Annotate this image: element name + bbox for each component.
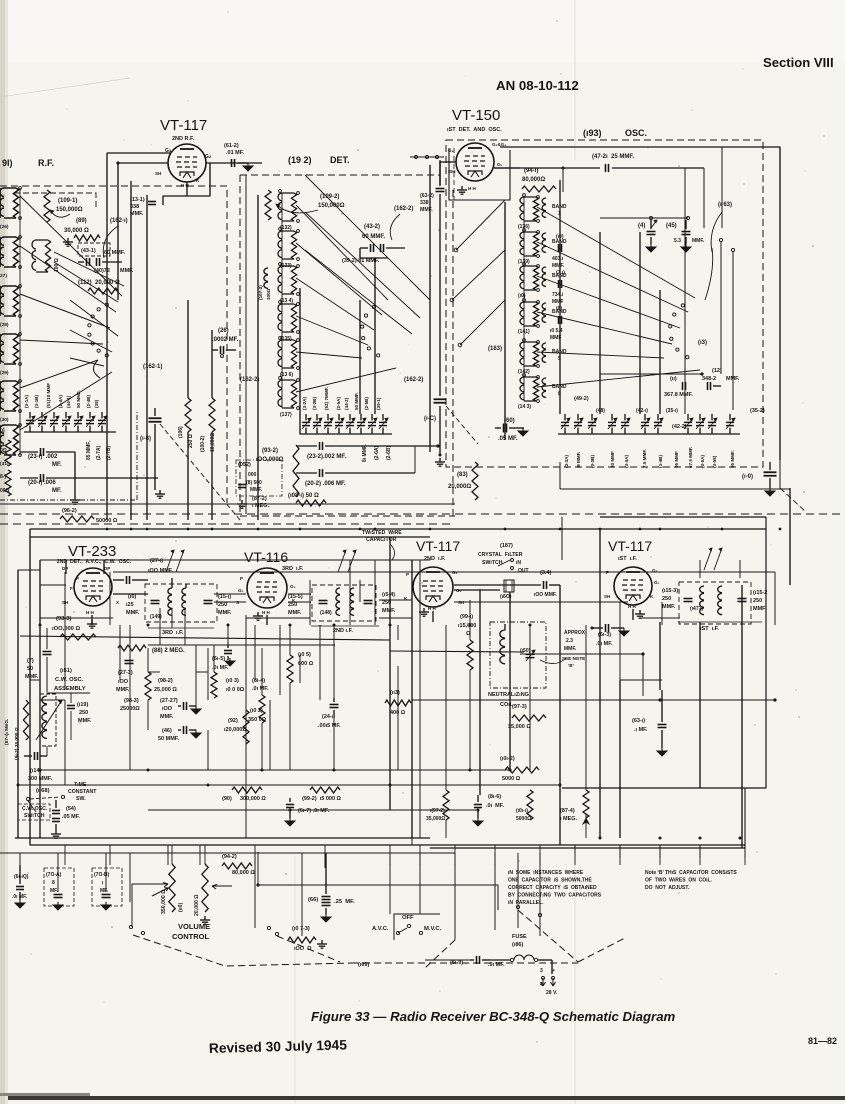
svg-text:(6): (6)	[556, 306, 562, 312]
svg-text:(ı08-ı) 50 Ω: (ı08-ı) 50 Ω	[288, 493, 319, 499]
wires around VT-117 2nd RF	[206, 162, 262, 164]
DET coil (13 4)	[278, 266, 282, 294]
svg-text:(47-2ı 25 MMF.: (47-2ı 25 MMF.	[592, 154, 634, 160]
bottom verticals from IF strip	[64, 845, 66, 865]
DET vertical rails	[257, 195, 259, 520]
3rd IF arrows	[166, 550, 174, 572]
svg-text:C.W. OSC.: C.W. OSC.	[22, 806, 48, 812]
svg-text:VT-117: VT-117	[608, 538, 652, 554]
svg-text:MMF.: MMF.	[382, 608, 396, 614]
svg-text:(43-1): (43-1)	[81, 248, 96, 254]
svg-text:367.8 MMF.: 367.8 MMF.	[664, 392, 693, 398]
svg-text:(ı 63): (ı 63)	[718, 202, 732, 208]
coil bank terminal dots OSC	[537, 196, 540, 199]
svg-text:(63-ı): (63-ı)	[632, 718, 645, 724]
svg-text:ıOO MMF.: ıOO MMF.	[148, 568, 174, 574]
svg-text:(ı15-2: (ı15-2	[753, 590, 767, 596]
svg-text:000: 000	[248, 472, 257, 478]
curve from arc to 163 right	[705, 248, 713, 300]
svg-text:DP: DP	[104, 566, 110, 571]
svg-text:(90): (90)	[222, 796, 232, 802]
svg-text:MMF.: MMF.	[218, 610, 232, 616]
3rd IF transformer dashed box	[145, 584, 217, 622]
svg-text:403.ı: 403.ı	[552, 256, 564, 262]
svg-text:‘Β’: ‘Β’	[568, 663, 574, 668]
solid separator line y503	[0, 503, 455, 505]
svg-text:(13-1): (13-1)	[130, 197, 145, 203]
faint crease top-left	[0, 78, 130, 97]
svg-text:(9ı-2) 35,000 Ω: (9ı-2) 35,000 Ω	[14, 727, 20, 760]
long dashed separator lines	[0, 513, 845, 515]
svg-text:(8ı-6): (8ı-6)	[488, 794, 501, 800]
OSC left fan wires	[456, 200, 505, 250]
svg-text:95 MMF.: 95 MMF.	[730, 450, 735, 468]
svg-text:Figure 33 — Radio Receiver BC-: Figure 33 — Radio Receiver BC-348-Q Sche…	[311, 1009, 676, 1024]
svg-text:ı MEG.: ı MEG.	[560, 816, 578, 822]
svg-text:(35-ı): (35-ı)	[666, 408, 678, 414]
coil bank terminal dots RF	[19, 187, 22, 190]
svg-text:50 MMF.: 50 MMF.	[76, 390, 81, 408]
svg-text:ı25: ı25	[126, 602, 134, 608]
svg-text:(29): (29)	[0, 370, 9, 376]
svg-text:250: 250	[218, 602, 227, 608]
svg-text:(2-4A): (2-4A)	[58, 395, 63, 408]
paper specks	[278, 170, 279, 171]
svg-text:.0002 MF.: .0002 MF.	[212, 337, 239, 343]
svg-text:.00ı5 MF.: .00ı5 MF.	[318, 723, 341, 729]
tube VT-116	[247, 568, 287, 608]
svg-text:(54): (54)	[66, 806, 76, 812]
svg-text:(ı93): (ı93)	[583, 128, 602, 138]
svg-text:H H: H H	[628, 604, 636, 609]
svg-text:G₂&G₄: G₂&G₄	[492, 142, 506, 147]
svg-text:̖7.5 MMF.: ̖7.5 MMF.	[642, 449, 647, 469]
RF ground under gang	[74, 496, 76, 500]
svg-text:CRYSTAL FıLTER: CRYSTAL FıLTER	[478, 552, 523, 558]
arrow terminals 28V	[541, 978, 546, 986]
svg-text:(162-2): (162-2)	[404, 377, 423, 383]
svg-text:338: 338	[420, 200, 429, 206]
bottom section verticals	[19, 853, 21, 872]
svg-text:MMF.: MMF.	[160, 714, 174, 720]
OSC vertical rails	[559, 180, 561, 414]
svg-text:(63-2): (63-2)	[420, 193, 434, 199]
svg-text:(2-5A): (2-5A)	[336, 397, 341, 410]
svg-text:(109-1): (109-1)	[58, 198, 77, 204]
svg-text:SWıTCH: SWıTCH	[24, 813, 45, 819]
svg-text:MMF.: MMF.	[420, 207, 433, 213]
dashed diagonal runs	[133, 935, 352, 966]
dashed diagonal right of OSC	[780, 488, 806, 512]
svg-text:5000 Ω: 5000 Ω	[502, 776, 521, 782]
IF strip ladder verticals	[64, 572, 66, 690]
junction dots top buses	[106, 528, 109, 531]
svg-text:(ı15-3)ı: (ı15-3)ı	[662, 588, 680, 594]
cap (4)	[600, 217, 688, 219]
svg-text:348-2: 348-2	[702, 376, 716, 382]
svg-text:OSC.: OSC.	[625, 128, 647, 138]
svg-text:27): 27)	[0, 273, 7, 279]
3rd IF caps	[151, 600, 160, 602]
RF antenna coil (30)	[0, 381, 4, 411]
svg-text:(162-2): (162-2)	[394, 206, 413, 212]
RF coil connecting rail	[19, 188, 21, 455]
OSC coil (14͙1)	[520, 302, 524, 326]
RF antenna coil (28)	[0, 286, 4, 316]
svg-text:300 MMF.: 300 MMF.	[28, 776, 53, 782]
left scan edge shading	[0, 0, 5, 1104]
svg-text:(6ı-ıQ): (6ı-ıQ)	[14, 874, 29, 880]
2nd IF coils	[336, 588, 340, 616]
IF strip main wires	[454, 589, 500, 591]
svg-text:(7O-A): (7O-A)	[46, 872, 62, 878]
svg-text:(26): (26)	[218, 328, 229, 334]
svg-text:CAPACıTOR: CAPACıTOR	[366, 537, 397, 543]
switch contact circles left	[129, 925, 132, 928]
svg-text:MMF.: MMF.	[78, 718, 92, 724]
resistor (109-1) 150000	[44, 190, 50, 222]
svg-text:(ı3): (ı3)	[698, 340, 707, 346]
svg-text:(ı): (ı)	[0, 428, 5, 434]
svg-text:(49-2): (49-2)	[574, 396, 589, 402]
OSC coil (ı0)	[520, 266, 524, 290]
svg-text:ıOO,000 Ω: ıOO,000 Ω	[52, 626, 81, 632]
DET coil (135)	[278, 304, 282, 332]
svg-text:MMF: MMF	[552, 299, 563, 305]
dash-dot box (052)	[236, 460, 282, 496]
svg-text:2ND R.F.: 2ND R.F.	[172, 136, 195, 142]
svg-text:.01 MF.: .01 MF.	[226, 150, 245, 156]
svg-text:MMF.: MMF.	[116, 687, 130, 693]
svg-text:ı MEG.: ı MEG.	[252, 503, 270, 509]
svg-text:100Ω: 100Ω	[266, 288, 271, 300]
1st IF transformer dashed box	[679, 582, 751, 624]
resistor (109-2) 150000	[265, 190, 271, 220]
CW osc coil	[40, 694, 56, 746]
svg-text:ASSEMBLY: ASSEMBLY	[54, 686, 86, 692]
OSC dashed enclosure	[446, 140, 763, 467]
svg-text:3RD ı.F.: 3RD ı.F.	[162, 630, 184, 636]
svg-text:(46): (46)	[162, 728, 172, 734]
svg-text:(43-2): (43-2)	[364, 224, 380, 230]
VT-233 top wires	[65, 560, 67, 574]
svg-text:.05 MF.: .05 MF.	[498, 436, 518, 442]
svg-text:(51)10 MMF: (51)10 MMF	[46, 383, 51, 408]
svg-text:81—82: 81—82	[808, 1036, 837, 1046]
svg-text:(89): (89)	[76, 218, 87, 224]
svg-text:(ı0ı-ı): (ı0ı-ı)	[516, 808, 528, 814]
svg-text:VOLUME: VOLUME	[178, 922, 210, 931]
svg-text:BY CONNECTıNG TWO CAPACıTOR: BY CONNECTıNG TWO CAPACıTORS	[508, 893, 602, 899]
svg-text:(87-2): (87-2)	[252, 496, 267, 502]
svg-text:H H: H H	[428, 606, 436, 611]
svg-text:TWıSTED WıRE: TWıSTED WıRE	[362, 530, 402, 536]
svg-text:3: 3	[540, 968, 543, 974]
IF strip bottom bus lines	[15, 837, 430, 839]
svg-text:VT-116: VT-116	[244, 549, 288, 565]
svg-text:MMF.: MMF.	[126, 610, 140, 616]
right inner box edges	[600, 516, 766, 518]
svg-text:(ı0 7-3): (ı0 7-3)	[292, 926, 310, 932]
svg-text:734.ı: 734.ı	[552, 292, 564, 298]
resistor (99-2) 15000	[310, 787, 340, 793]
resistor (90) 300000	[232, 787, 262, 793]
svg-text:(163): (163)	[488, 346, 502, 352]
svg-text:(87-4): (87-4)	[560, 808, 575, 814]
svg-text:ONE CAPACıTOR ıS SHOWN,THE: ONE CAPACıTOR ıS SHOWN,THE	[508, 878, 592, 884]
svg-text:(ı51): (ı51)	[60, 668, 72, 674]
RF coil (107-1) 100 ohm	[32, 240, 36, 272]
1st IF arrows	[704, 548, 712, 570]
svg-text:(052): (052)	[238, 462, 251, 468]
svg-text:(2-6A): (2-6A)	[374, 445, 380, 460]
svg-text:8: 8	[52, 880, 55, 886]
svg-text:(30): (30)	[0, 417, 9, 423]
svg-text:G₁: G₁	[497, 162, 503, 167]
svg-text:50 MMF.: 50 MMF.	[158, 736, 180, 742]
svg-text:Section VIII: Section VIII	[763, 55, 834, 70]
OSC coil connecting rail	[523, 197, 525, 401]
svg-text:(61-2): (61-2)	[224, 143, 239, 149]
svg-text:(ı0 3): (ı0 3)	[226, 678, 239, 684]
svg-text:(3-1B): (3-1B)	[34, 395, 39, 408]
svg-text:(ı477): (ı477)	[690, 606, 703, 612]
svg-text:M.V.C.: M.V.C.	[424, 926, 442, 932]
svg-text:(ı0ı-2): (ı0ı-2)	[500, 756, 515, 762]
svg-text:(ı6): (ı6)	[128, 594, 136, 600]
svg-text:3RD ı.F.: 3RD ı.F.	[282, 566, 304, 572]
svg-text:SH: SH	[604, 594, 610, 599]
svg-text:DO NOT ADJUST.: DO NOT ADJUST.	[645, 885, 690, 891]
DET coil (133)	[278, 231, 282, 259]
svg-text:(99-2) ı5 000 Ω: (99-2) ı5 000 Ω	[302, 796, 342, 802]
DET coil (13 6)	[278, 340, 282, 368]
svg-text:(ı5-4): (ı5-4)	[382, 592, 395, 598]
svg-text:(ıı0): (ıı0)	[178, 903, 184, 912]
svg-text:150,000Ω: 150,000Ω	[56, 207, 83, 213]
switch bus y374	[600, 373, 702, 375]
svg-text:(19 2): (19 2)	[288, 155, 312, 165]
svg-text:(3.4): (3.4)	[540, 570, 551, 576]
DET gang tuning capacitor row	[302, 421, 310, 423]
svg-text:MMF.: MMF.	[552, 263, 565, 269]
RF antenna coil (26)	[0, 188, 4, 218]
svg-text:250: 250	[79, 710, 88, 716]
svg-text:ıST DET. AND OSC.: ıST DET. AND OSC.	[447, 127, 502, 133]
svg-text:50000 Ω: 50000 Ω	[96, 518, 118, 524]
svg-text:(24-ı): (24-ı)	[322, 714, 335, 720]
svg-text:(88) 2 MEG.: (88) 2 MEG.	[152, 648, 185, 654]
svg-text:MMF: MMF	[753, 606, 766, 612]
svg-text:SW.: SW.	[76, 796, 86, 802]
RF fan wires second set	[70, 300, 118, 336]
svg-text:30,000 Ω: 30,000 Ω	[64, 228, 89, 234]
resistors (106)250 and (100-2)10000 vertical right of RF	[185, 398, 191, 432]
coil bank terminal dots DET	[297, 192, 300, 195]
svg-text:S: S	[236, 600, 239, 605]
DET coil (137)	[278, 380, 282, 408]
svg-text:(107-2): (107-2)	[258, 285, 263, 300]
tube VT-233	[74, 568, 112, 606]
OSC switch arc contacts	[686, 356, 689, 359]
svg-text:ıST ı.F.: ıST ı.F.	[618, 556, 637, 562]
svg-text:338: 338	[130, 204, 139, 210]
long diagonals from coils to right	[305, 175, 430, 300]
extra horizontals bottom area	[0, 852, 455, 854]
IF strip long horizontal wires	[40, 559, 430, 561]
capacitor (13-1) 338 MMF	[148, 201, 156, 203]
svg-text:(42-ı): (42-ı)	[636, 408, 648, 414]
bottom scan bar	[8, 1096, 845, 1100]
svg-text:.25 MF.: .25 MF.	[334, 899, 355, 905]
svg-text:MF.: MF.	[52, 462, 62, 468]
DET coil connecting rail	[281, 193, 283, 408]
2nd IF transformer dashed box	[312, 585, 376, 621]
svg-text:(2-5B): (2-5B)	[364, 397, 369, 410]
svg-text:ıOO MMF.: ıOO MMF.	[534, 592, 557, 598]
svg-text:MF.: MF.	[100, 888, 109, 894]
RF switch arc contacts	[105, 354, 108, 357]
DET band-switch fan wires	[296, 205, 388, 300]
OSC bottom solid bus	[560, 488, 790, 490]
svg-text:.0ı MF.: .0ı MF.	[252, 686, 269, 692]
inner dashed detail	[454, 148, 500, 200]
svg-text:CONSTANT: CONSTANT	[68, 789, 97, 795]
svg-text:67.5 MMF.: 67.5 MMF.	[688, 447, 693, 468]
svg-text:P: P	[76, 576, 79, 581]
svg-text:(3-2B): (3-2B)	[312, 397, 317, 410]
svg-text:ıST ı.F.: ıST ı.F.	[700, 626, 719, 632]
svg-text:(2-7Β): (2-7Β)	[106, 445, 112, 460]
svg-text:MMF.: MMF.	[25, 674, 39, 680]
svg-text:(3-3B): (3-3B)	[590, 455, 595, 468]
tube VT-150	[456, 143, 494, 181]
bus wire y885 to switch	[258, 884, 498, 886]
svg-text:150,000Ω: 150,000Ω	[318, 203, 345, 209]
svg-text:(2-6B): (2-6B)	[386, 445, 392, 460]
svg-text:AN 08-10-112: AN 08-10-112	[496, 78, 579, 93]
1st IF caps	[684, 598, 693, 600]
svg-text:250: 250	[753, 598, 762, 604]
tube VT-117 2nd IF	[413, 567, 453, 607]
svg-text:(92): (92)	[228, 718, 238, 724]
svg-text:(8ı-4): (8ı-4)	[252, 678, 265, 684]
svg-text:DET.: DET.	[330, 155, 350, 165]
RF gang tuning capacitor row	[26, 419, 34, 421]
svg-text:OFF: OFF	[402, 915, 414, 921]
capacitors (43-1) 60MMF (40)72MMF box	[78, 243, 110, 256]
svg-text:P: P	[240, 576, 243, 581]
svg-text:(7O-Β): (7O-Β)	[94, 872, 110, 878]
svg-text:(3-4A): (3-4A)	[624, 455, 629, 468]
svg-text:ı0 5.4: ı0 5.4	[550, 328, 563, 334]
svg-text:ı15,000: ı15,000	[458, 623, 476, 629]
svg-text:(39-1): (39-1)	[376, 397, 381, 410]
svg-text:(162-1): (162-1)	[143, 364, 162, 370]
cap box (70-A) 8 MF	[44, 868, 74, 906]
svg-text:APPROX.: APPROX.	[564, 630, 587, 636]
resistor (83) 20000	[472, 462, 478, 500]
svg-text:CORRECT CAPACıTY ıS OBTAıNE: CORRECT CAPACıTY ıS OBTAıNED	[508, 885, 597, 891]
svg-text:(23-2).002 MF.: (23-2).002 MF.	[307, 454, 346, 460]
RF inner dashed box	[14, 193, 96, 208]
wire from OSC to IF right	[779, 460, 781, 489]
svg-text:95 MMF: 95 MMF	[674, 451, 679, 468]
svg-text:MMF.: MMF.	[564, 646, 577, 652]
svg-text:(20-ı) .006: (20-ı) .006	[28, 480, 56, 486]
svg-text:.05 MF.: .05 MF.	[62, 814, 81, 820]
svg-text:5.3: 5.3	[674, 238, 681, 244]
svg-text:9I): 9I)	[2, 158, 13, 168]
svg-text:OF TWO WıRES ON COıL.: OF TWO WıRES ON COıL.	[645, 878, 713, 884]
svg-text:(ı-8): (ı-8)	[140, 436, 151, 442]
svg-text:28 V.: 28 V.	[546, 990, 558, 996]
svg-text:(3-2A): (3-2A)	[302, 397, 307, 410]
svg-text:SH: SH	[155, 171, 161, 176]
svg-text:(100-2): (100-2)	[200, 436, 206, 452]
IF strip left rails	[17, 570, 19, 838]
svg-text:35,000Ω: 35,000Ω	[426, 816, 445, 822]
svg-text:.0ı MF.: .0ı MF.	[596, 641, 613, 647]
svg-text:VT-233: VT-233	[68, 543, 116, 560]
svg-text:(162-2): (162-2)	[240, 377, 259, 383]
DET switch arc contacts	[377, 354, 380, 357]
svg-text:DP: DP	[62, 566, 68, 571]
svg-text:25,000 Ω: 25,000 Ω	[154, 687, 177, 693]
svg-text:(148): (148)	[320, 610, 332, 616]
svg-text:MMF.: MMF.	[662, 604, 676, 610]
svg-text:(97-3): (97-3)	[512, 704, 527, 710]
svg-text:H H: H H	[86, 610, 94, 615]
svg-text:ı0 0 0Ω: ı0 0 0Ω	[226, 687, 245, 693]
IF strip top bus lines	[30, 528, 766, 530]
svg-text:(93-2): (93-2)	[262, 448, 278, 454]
svg-text:(27-27): (27-27)	[160, 698, 178, 704]
svg-text:(3-5A): (3-5A)	[700, 455, 705, 468]
svg-text:(28): (28)	[0, 322, 9, 328]
RF band-switch fan wires	[20, 196, 122, 296]
svg-text:50: 50	[27, 666, 33, 672]
svg-text:(35-2): (35-2)	[750, 408, 765, 414]
svg-text:VT-150: VT-150	[452, 107, 500, 124]
svg-text:350,000 Ω: 350,000 Ω	[161, 890, 167, 914]
svg-text:OUT: OUT	[518, 568, 529, 574]
wire y654 right	[520, 653, 643, 655]
svg-text:(98-2): (98-2)	[158, 678, 173, 684]
OSC coil (136)	[520, 197, 524, 221]
svg-text:MMF.: MMF.	[120, 268, 134, 274]
svg-text:(ı0): (ı0)	[518, 293, 526, 299]
svg-text:(44-1): (44-1)	[66, 395, 71, 408]
svg-text:(ı86): (ı86)	[512, 942, 523, 948]
RF antenna coil (31)	[0, 425, 4, 455]
svg-text:MF.: MF.	[50, 888, 59, 894]
svg-text:5000Ω: 5000Ω	[516, 816, 531, 822]
VT-150 surround wires	[440, 161, 456, 163]
svg-text:(ı19): (ı19)	[77, 702, 88, 708]
IF lower long wires	[40, 769, 510, 771]
svg-text:A.V.C.: A.V.C.	[372, 926, 389, 932]
svg-text:C.W. OSC.: C.W. OSC.	[55, 677, 84, 683]
svg-text:G₂: G₂	[238, 588, 244, 593]
svg-text:(3-4B): (3-4B)	[658, 455, 663, 468]
OSC coil (139)	[520, 232, 524, 256]
svg-text:(83): (83)	[457, 472, 468, 478]
OSC coil (14 3)	[520, 377, 524, 401]
svg-text:G₃: G₃	[290, 584, 296, 589]
svg-text:(44-2): (44-2)	[344, 397, 349, 410]
svg-text:85 MMF.: 85 MMF.	[86, 440, 92, 460]
